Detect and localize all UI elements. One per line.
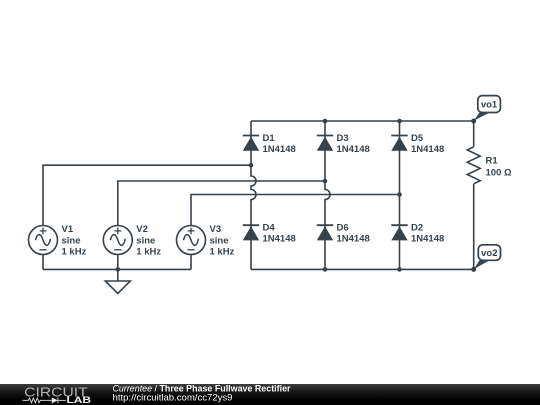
svg-text:vo1: vo1 bbox=[481, 100, 498, 111]
svg-text:vo2: vo2 bbox=[481, 248, 497, 259]
diode D4 bbox=[243, 223, 296, 245]
svg-text:sine: sine bbox=[62, 236, 81, 247]
wire column 1 vertical with hops bbox=[251, 121, 256, 269]
svg-text:100 Ω: 100 Ω bbox=[486, 167, 512, 178]
svg-text:D6: D6 bbox=[337, 223, 349, 234]
wire column 2 vertical with hop bbox=[325, 121, 330, 269]
wire phase C from V3 bbox=[191, 195, 400, 226]
svg-text:1 kHz: 1 kHz bbox=[62, 247, 87, 258]
svg-text:V2: V2 bbox=[136, 224, 148, 235]
svg-text:1N4148: 1N4148 bbox=[411, 144, 444, 155]
node junction dots bbox=[116, 119, 477, 272]
svg-text:sine: sine bbox=[136, 236, 155, 247]
voltage source V2 bbox=[103, 226, 132, 255]
resistor R1 bbox=[467, 147, 480, 184]
svg-text:http://circuitlab.com/cc72ys9: http://circuitlab.com/cc72ys9 bbox=[113, 393, 233, 403]
wire phase B from V2 bbox=[118, 181, 325, 226]
diode D2 bbox=[391, 223, 444, 245]
svg-text:1N4148: 1N4148 bbox=[263, 144, 296, 155]
footer bar bbox=[0, 384, 540, 405]
diode D1 bbox=[243, 133, 296, 155]
svg-text:1 kHz: 1 kHz bbox=[210, 247, 235, 258]
wire bottom bridge rail bbox=[251, 268, 474, 270]
svg-text:D2: D2 bbox=[411, 223, 423, 234]
svg-text:R1: R1 bbox=[486, 155, 499, 166]
svg-text:LAB: LAB bbox=[67, 396, 92, 405]
svg-text:1N4148: 1N4148 bbox=[411, 234, 444, 245]
svg-text:sine: sine bbox=[210, 236, 229, 247]
node flag vo1 bbox=[474, 96, 501, 121]
node flag vo2 bbox=[474, 245, 501, 269]
svg-text:D5: D5 bbox=[411, 133, 424, 144]
svg-text:D1: D1 bbox=[263, 133, 276, 144]
svg-text:1N4148: 1N4148 bbox=[337, 234, 370, 245]
wire right rail upper bbox=[473, 121, 475, 147]
logo wire + resistor + diode bbox=[23, 398, 66, 404]
svg-text:V1: V1 bbox=[62, 224, 74, 235]
ground bbox=[105, 281, 130, 294]
wire neutral rail bbox=[43, 268, 191, 270]
svg-text:1N4148: 1N4148 bbox=[337, 144, 370, 155]
wire V1 bottom bbox=[42, 255, 44, 270]
wire top rail vo1 bbox=[251, 120, 474, 122]
wire ground stem bbox=[117, 269, 119, 281]
svg-text:1 kHz: 1 kHz bbox=[136, 247, 161, 258]
svg-text:V3: V3 bbox=[210, 224, 222, 235]
wire phase A from V1 bbox=[43, 165, 251, 225]
diode D6 bbox=[317, 223, 370, 245]
diode D3 bbox=[317, 133, 370, 155]
wire V2 bottom bbox=[117, 255, 119, 270]
diode D5 bbox=[391, 133, 444, 155]
voltage source V1 bbox=[29, 226, 58, 255]
wire right rail lower bbox=[473, 184, 475, 270]
wire V3 bottom bbox=[190, 255, 192, 270]
wire column 3 vertical bbox=[399, 121, 401, 269]
svg-text:D3: D3 bbox=[337, 133, 349, 144]
svg-text:1N4148: 1N4148 bbox=[263, 234, 296, 245]
voltage source V3 bbox=[177, 226, 206, 255]
svg-text:D4: D4 bbox=[263, 223, 276, 234]
